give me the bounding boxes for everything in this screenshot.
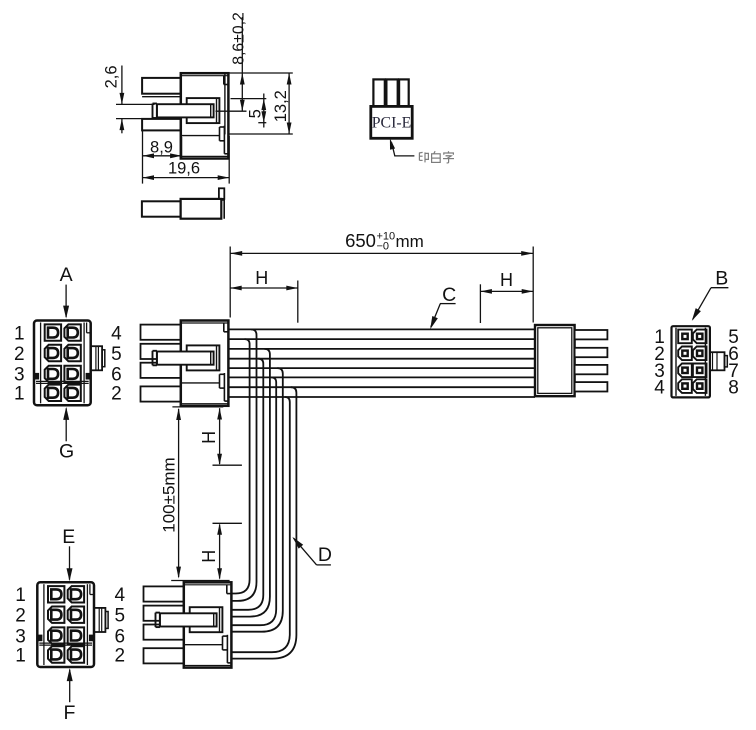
- svg-text:F: F: [63, 702, 75, 724]
- svg-text:D: D: [318, 544, 332, 566]
- svg-text:H: H: [199, 550, 219, 563]
- PCI-E plug front view body: [371, 106, 412, 138]
- svg-text:2,6: 2,6: [103, 65, 121, 88]
- PCI-E plug prongs: [373, 79, 384, 106]
- svg-text:4: 4: [115, 585, 126, 606]
- svg-text:650: 650: [345, 230, 376, 251]
- svg-text:100±5mm: 100±5mm: [160, 457, 179, 532]
- svg-text:H: H: [199, 431, 219, 444]
- cable bundle: 8 horizontal wire lines to connector C: [228, 328, 535, 330]
- svg-text:5: 5: [246, 109, 264, 118]
- svg-text:2: 2: [14, 344, 25, 365]
- svg-text:5: 5: [115, 606, 126, 627]
- svg-text:G: G: [59, 441, 74, 463]
- svg-text:B: B: [715, 267, 728, 289]
- svg-text:5: 5: [111, 344, 122, 365]
- connector E front view: [37, 582, 108, 667]
- svg-text:3: 3: [14, 365, 25, 386]
- branch wire: [232, 387, 297, 658]
- printed-white-text note (CJK glyphs): [419, 151, 423, 154]
- svg-text:3: 3: [15, 626, 26, 647]
- svg-text:1: 1: [15, 585, 26, 606]
- svg-text:6: 6: [115, 626, 126, 647]
- detail view left profile walls: [142, 78, 181, 94]
- detail view: cable housing side profile: [153, 73, 229, 158]
- svg-text:C: C: [442, 284, 456, 306]
- lower cable housing (rear of connector E): [144, 582, 232, 667]
- branch wire: [232, 368, 283, 632]
- svg-text:6: 6: [111, 365, 122, 386]
- connector C housing at cable end: [535, 325, 575, 396]
- svg-text:mm: mm: [396, 232, 424, 251]
- svg-text:8: 8: [728, 378, 739, 399]
- svg-text:1: 1: [14, 323, 25, 344]
- upper cable housing (rear of connector A): [141, 321, 229, 406]
- svg-text:13,2: 13,2: [272, 90, 290, 122]
- svg-text:19,6: 19,6: [168, 159, 200, 177]
- leader arrow to print marking: [392, 143, 415, 156]
- detail view right mating face line: [224, 73, 226, 134]
- svg-text:2: 2: [111, 384, 122, 405]
- svg-text:H: H: [500, 270, 513, 290]
- svg-text:−0: −0: [377, 241, 390, 253]
- connector A front view: [34, 321, 105, 406]
- crimp terminal side view: [142, 201, 181, 216]
- svg-text:PCI-E: PCI-E: [372, 115, 412, 132]
- svg-text:2: 2: [15, 606, 26, 627]
- connector C terminal prongs: [575, 330, 608, 339]
- svg-text:2: 2: [115, 645, 126, 666]
- svg-text:H: H: [255, 268, 268, 288]
- connector B front view: [672, 326, 728, 397]
- svg-text:A: A: [60, 264, 73, 286]
- svg-text:8,6±0,2: 8,6±0,2: [231, 12, 248, 65]
- svg-text:4: 4: [654, 378, 665, 399]
- branch wire: [232, 329, 257, 601]
- branch wire: [232, 349, 270, 617]
- svg-text:1: 1: [14, 384, 25, 405]
- svg-text:E: E: [62, 526, 75, 548]
- svg-text:4: 4: [111, 323, 122, 344]
- svg-text:1: 1: [15, 645, 26, 666]
